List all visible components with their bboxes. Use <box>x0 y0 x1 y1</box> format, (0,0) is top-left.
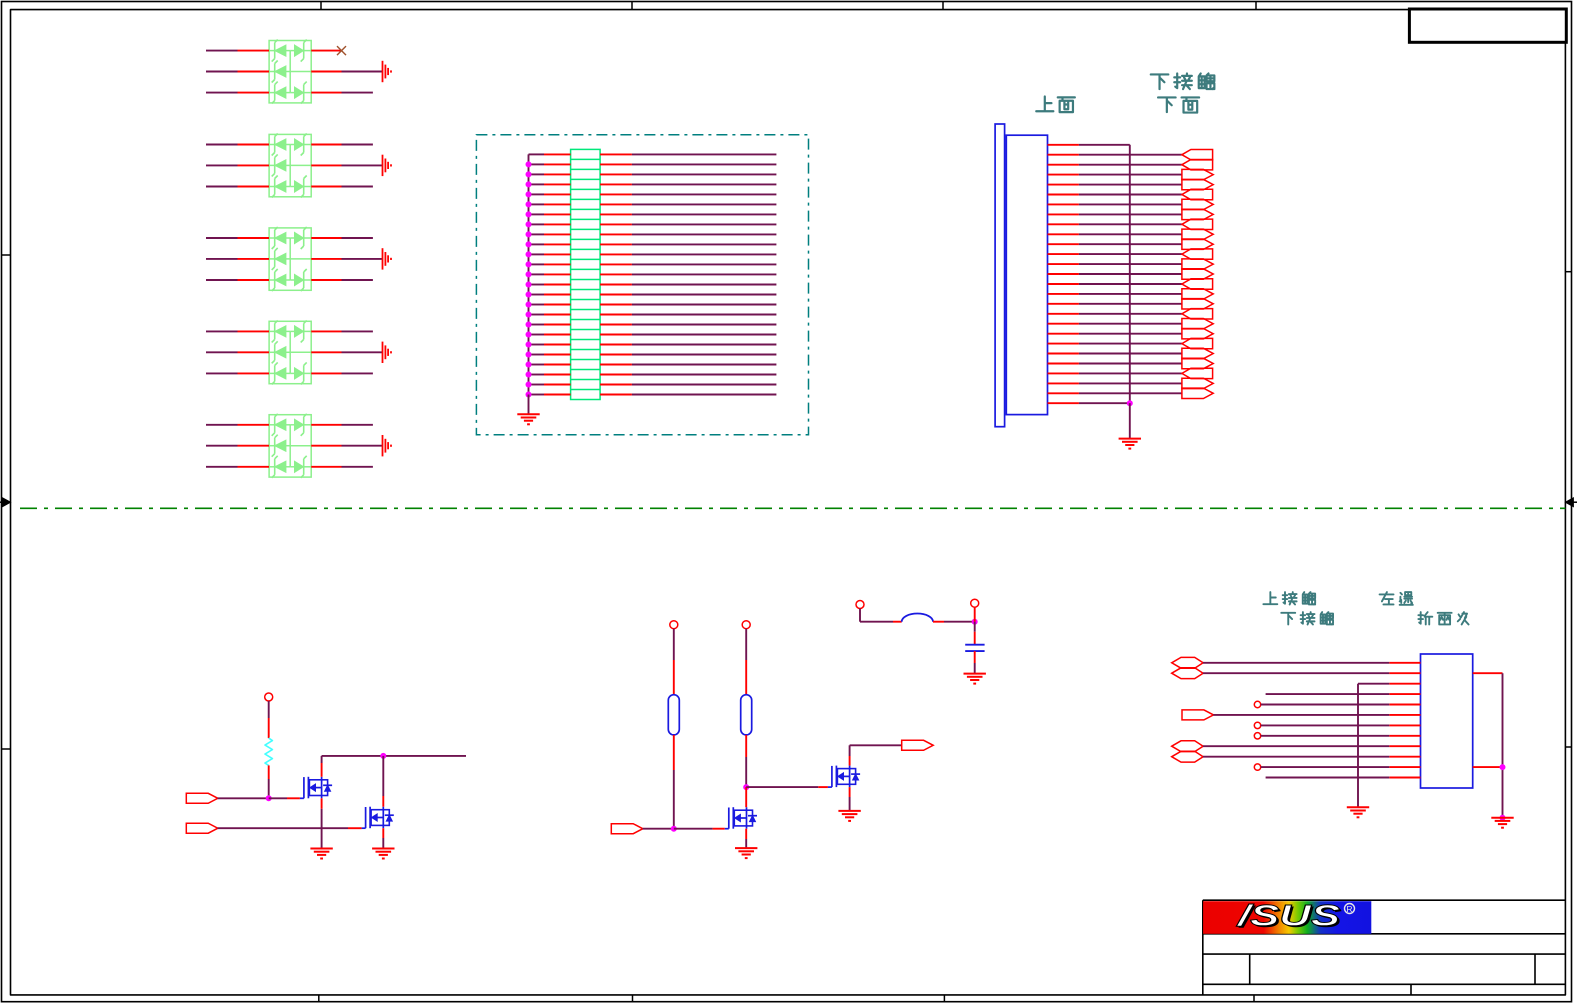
svg-text:R: R <box>1346 904 1352 914</box>
svg-text:/SUS: /SUS <box>1235 900 1340 933</box>
